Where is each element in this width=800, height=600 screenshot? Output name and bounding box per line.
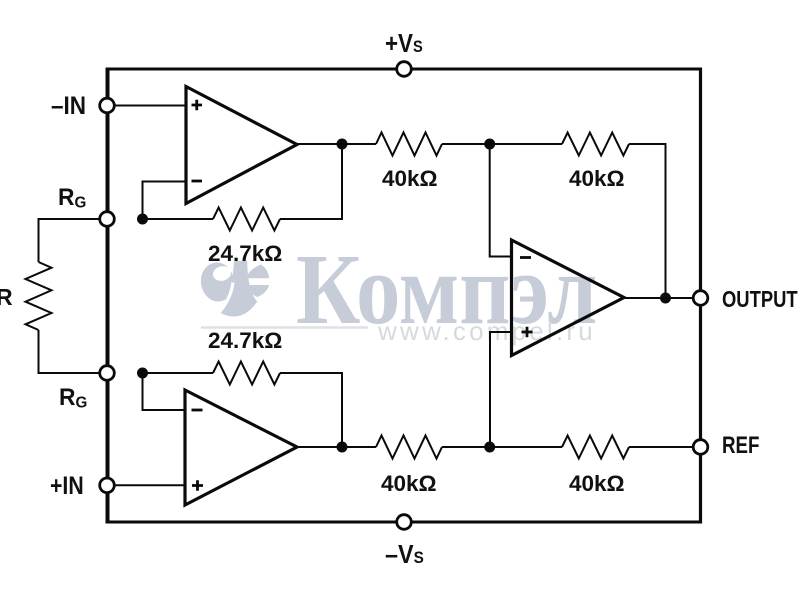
terminal -IN — [100, 98, 115, 113]
box border left — [106, 68, 110, 524]
terminal RG lower — [100, 366, 115, 381]
wire A1 - input to node RG1 — [143, 182, 187, 220]
wire A3 output to OUTPUT terminal — [624, 297, 699, 299]
op-amp A2 — [185, 390, 297, 505]
wire 24.7k bottom to A2 output node — [280, 373, 342, 447]
op-amp A2 plus sign — [192, 480, 203, 491]
junction node RG2 — [137, 368, 148, 379]
label 24.7k top — [208, 243, 282, 266]
junction node A2 output — [337, 442, 348, 453]
wire node RG1 to resistor 24.7k top — [143, 218, 214, 220]
wire resistor R bottom to RG2 — [39, 330, 108, 373]
label -IN — [51, 94, 86, 119]
wire RG1 to resistor R top — [39, 219, 108, 262]
junction node N1 — [484, 139, 495, 150]
terminal -VS — [397, 515, 412, 530]
box border top — [106, 68, 703, 71]
resistor 40k top-right — [562, 133, 629, 156]
label +IN — [50, 474, 84, 499]
wire +IN to A2 + input — [110, 484, 185, 486]
label -VS — [385, 541, 424, 567]
watermark underline — [201, 326, 368, 328]
wire 40k TL to node N1 — [442, 143, 562, 145]
resistor 24.7k top — [213, 208, 280, 231]
op-amp A3 plus sign — [522, 327, 533, 338]
wire 40k TR to output node — [629, 144, 666, 298]
label RG lower — [59, 386, 87, 412]
label 24.7k bottom — [208, 330, 282, 353]
label R — [0, 286, 13, 309]
wire A1 output to 40k TL — [297, 143, 376, 145]
op-amp A1 minus sign — [192, 180, 203, 183]
box border bottom — [106, 521, 703, 524]
watermark logo glyph — [198, 260, 269, 316]
label RG upper — [58, 186, 86, 212]
watermark url www.compel.ru — [378, 318, 596, 344]
wire node RG2 to resistor 24.7k bottom — [143, 372, 214, 374]
resistor 40k bottom-left — [376, 436, 442, 459]
terminal +IN — [100, 478, 115, 493]
wire A3 + input down to node N2 — [490, 332, 512, 447]
watermark logotype Компэл — [296, 239, 597, 340]
wire -IN to A1 + input — [110, 105, 186, 107]
junction node RG1 — [137, 214, 148, 225]
label 40k top-right — [569, 168, 625, 191]
label 40k bottom-left — [381, 473, 437, 496]
terminal OUTPUT — [693, 291, 708, 306]
wire node N1 down to A3 - input — [490, 144, 512, 257]
op-amp A3 — [512, 240, 625, 356]
wire 40k BR to REF terminal — [629, 446, 699, 448]
terminal RG upper — [100, 212, 115, 227]
junction node N2 — [484, 442, 495, 453]
wire 40k BL to node N2 — [442, 446, 562, 448]
terminal REF — [693, 440, 708, 455]
label +VS — [385, 30, 423, 56]
label OUTPUT — [722, 288, 798, 311]
resistor 40k bottom-right — [562, 436, 629, 459]
wire A2 - input to node RG2 — [143, 373, 186, 410]
resistor R — [26, 262, 52, 330]
op-amp A3 minus sign — [520, 256, 531, 259]
box border right — [699, 68, 702, 524]
resistor 40k top-left — [376, 133, 442, 156]
op-amp A1 — [186, 87, 297, 204]
wire A2 output to 40k BL — [297, 446, 376, 448]
junction node OUTPUT feedback — [660, 293, 671, 304]
resistor 24.7k bottom — [213, 362, 280, 385]
label REF — [722, 434, 759, 458]
op-amp A1 plus sign — [192, 100, 203, 111]
label 40k top-left — [382, 168, 438, 191]
terminal +VS — [397, 62, 412, 77]
op-amp A2 minus sign — [192, 409, 203, 412]
junction node A1 output — [337, 139, 348, 150]
wire 24.7k top to A1 output node — [280, 144, 342, 219]
label 40k bottom-right — [569, 473, 625, 496]
